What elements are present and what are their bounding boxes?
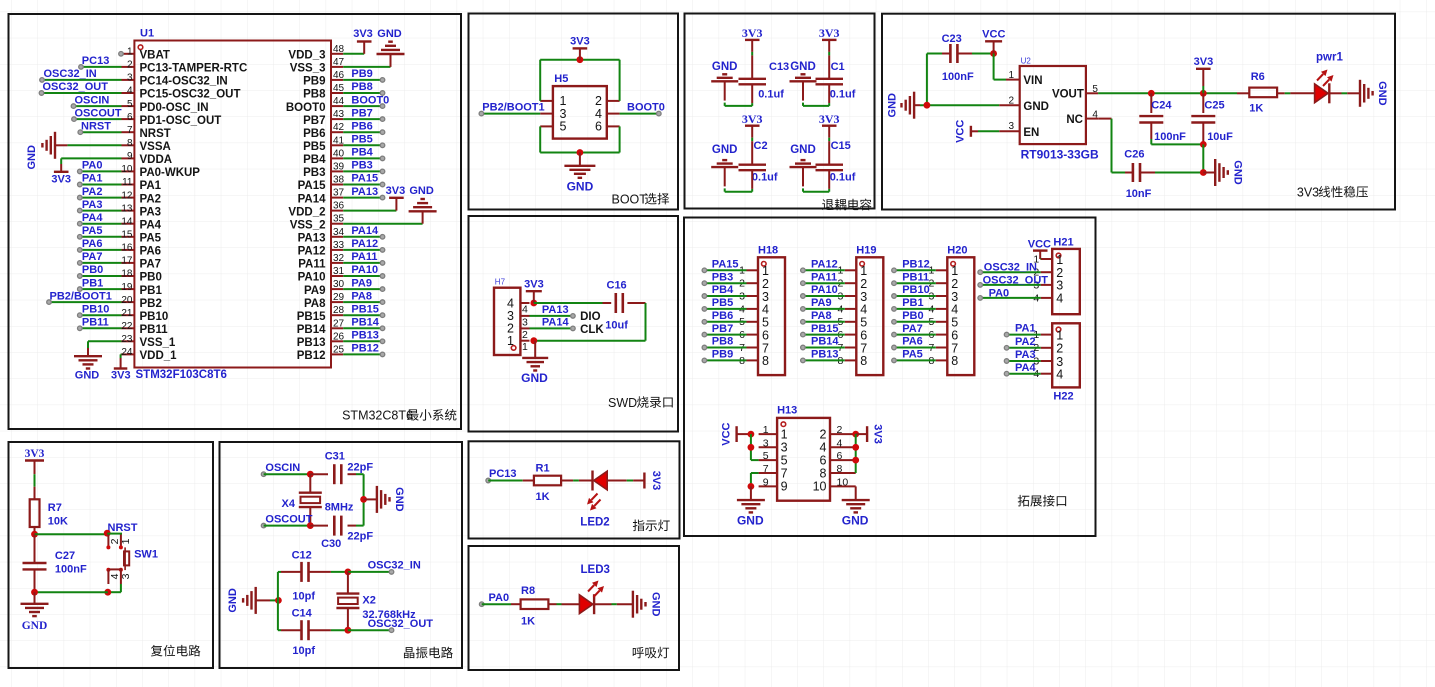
svg-text:PB7: PB7 [303, 115, 325, 127]
net label PB8 [712, 336, 733, 348]
svg-text:0.1uf: 0.1uf [830, 88, 856, 100]
ground symbol for C1 [790, 61, 817, 101]
svg-text:PA14: PA14 [542, 316, 570, 328]
svg-text:8: 8 [820, 466, 827, 480]
svg-text:15: 15 [121, 230, 133, 241]
power symbol 3V3 at U1 VDD_1 [111, 369, 131, 382]
svg-text:20: 20 [121, 295, 133, 306]
svg-text:R6: R6 [1251, 71, 1265, 83]
svg-text:1K: 1K [1249, 102, 1263, 114]
svg-text:PC13: PC13 [489, 468, 517, 480]
svg-text:GND: GND [737, 513, 764, 527]
svg-text:2: 2 [1056, 342, 1063, 356]
wire PA0 to H21 [980, 297, 1040, 299]
svg-text:C25: C25 [1204, 100, 1224, 112]
wire U1 VSS_1 pin23 to ground [88, 341, 122, 356]
LED2 diode [580, 471, 609, 529]
svg-text:PA0: PA0 [989, 287, 1010, 299]
svg-text:1: 1 [1056, 253, 1063, 267]
svg-text:H18: H18 [758, 244, 778, 256]
svg-text:PB7: PB7 [712, 323, 733, 335]
power symbol 3V3 for C15 [819, 112, 840, 126]
svg-text:PB14: PB14 [297, 324, 326, 336]
net label PA13 [351, 186, 378, 198]
svg-text:26: 26 [333, 331, 345, 342]
net label PA5 [82, 225, 103, 237]
node PA15 open end [702, 268, 707, 273]
net label OSCIN [265, 462, 300, 474]
wire PB4 to H18 pin 3 [704, 295, 746, 297]
node PA6 open end [78, 248, 83, 253]
node PB15 open end [380, 313, 385, 318]
svg-text:2: 2 [837, 424, 843, 436]
svg-text:1: 1 [522, 341, 528, 353]
svg-text:PB11: PB11 [82, 317, 109, 329]
ground symbol boot [564, 153, 595, 194]
wire net PA3 to U1 pin 13 [80, 210, 122, 212]
net label PB15 [351, 303, 379, 315]
wire net PB3 from U1 pin 39 [343, 170, 382, 172]
svg-text:PB12: PB12 [902, 258, 930, 270]
node PA7 open end [892, 332, 897, 337]
svg-text:PA3: PA3 [1015, 349, 1036, 361]
net label PA3 [82, 199, 103, 211]
svg-text:44: 44 [333, 96, 345, 107]
svg-text:C24: C24 [1151, 100, 1172, 112]
junction node H13 pin6 [852, 457, 859, 464]
section title STM32C8T6 minimal system [342, 409, 456, 423]
net label BOOT0 [351, 94, 389, 106]
wire PB6 to H18 pin 5 [704, 321, 746, 323]
ground symbol 32k section [227, 587, 256, 614]
resistor R7 [30, 499, 68, 527]
regulator U2 RT9013-33GB [1008, 57, 1099, 162]
svg-text:PB10: PB10 [902, 284, 930, 296]
svg-text:OSC32_IN: OSC32_IN [984, 262, 1037, 274]
svg-text:GND: GND [1023, 101, 1049, 113]
svg-text:25: 25 [333, 344, 345, 355]
svg-text:H21: H21 [1053, 237, 1073, 249]
wire H5 pin1/pin2 to 3V3 loop [540, 60, 619, 101]
svg-text:4: 4 [860, 303, 867, 317]
svg-text:5: 5 [560, 120, 567, 134]
svg-text:PC13-TAMPER-RTC: PC13-TAMPER-RTC [140, 63, 248, 75]
svg-text:17: 17 [121, 256, 133, 267]
svg-text:PA8: PA8 [304, 298, 326, 310]
svg-text:39: 39 [333, 161, 345, 172]
svg-text:OSCIN: OSCIN [75, 94, 110, 106]
svg-text:GND: GND [790, 61, 816, 73]
section title indicator LED [633, 520, 670, 532]
svg-text:PA4: PA4 [1015, 362, 1036, 374]
svg-text:GND: GND [712, 144, 738, 156]
wire PA8 to H19 pin 5 [803, 321, 845, 323]
node PA1 open end [78, 182, 83, 187]
wire net PA10 from U1 pin 31 [343, 275, 382, 277]
svg-text:VCC: VCC [1028, 239, 1051, 251]
node OSC32_IN open end [389, 570, 394, 575]
wire VCC to H21 pin1 [1039, 251, 1042, 259]
capacitor C24 100nF [1139, 93, 1186, 143]
svg-text:6: 6 [837, 450, 843, 462]
wire PC13 to R1 [488, 480, 534, 482]
wire C23 right to VCC node [972, 53, 994, 55]
svg-text:23: 23 [121, 334, 133, 345]
svg-text:X2: X2 [362, 594, 375, 606]
node PB5 open end [380, 143, 385, 148]
svg-text:H19: H19 [856, 244, 876, 256]
wire PA2 to H22 pin 2 [1007, 347, 1041, 349]
svg-text:6: 6 [951, 328, 958, 342]
wire H13 left rail top [751, 434, 759, 460]
wire H13 right rail [855, 434, 857, 473]
wire net PB0 to U1 pin 18 [80, 275, 122, 277]
svg-text:C13: C13 [769, 61, 789, 73]
net label PB6 [351, 120, 372, 132]
svg-text:VDD_1: VDD_1 [140, 350, 178, 362]
node PC13 open end [79, 65, 84, 70]
svg-text:3V3: 3V3 [353, 28, 373, 40]
section title expansion interface [1018, 495, 1066, 507]
wire PB2/BOOT1 to H5 pin3 [481, 113, 540, 115]
svg-text:NC: NC [1066, 114, 1083, 126]
wire net PB13 from U1 pin 26 [343, 340, 382, 342]
wire net PB10 to U1 pin 21 [80, 314, 122, 316]
svg-text:6: 6 [127, 112, 133, 123]
svg-text:3V3: 3V3 [819, 112, 840, 126]
chip U1 STM32F103C8T6 [121, 28, 344, 381]
svg-text:H22: H22 [1053, 391, 1073, 403]
junction node VOUT at C25 [1200, 90, 1207, 97]
crystal X2 32.768kHz [336, 572, 416, 630]
wire R6 to pwr1 [1277, 92, 1315, 94]
wire net OSC32_OUT to U1 pin 4 [42, 92, 122, 94]
junction node C26 ground [1200, 169, 1207, 176]
net label PA7 [902, 323, 923, 335]
net label PB1 [82, 277, 103, 289]
svg-text:8: 8 [951, 354, 958, 368]
ground symbol for C2 [711, 144, 738, 186]
svg-text:GND: GND [567, 180, 594, 194]
node OSC32_OUT open end [39, 91, 44, 96]
wire H5 pin4 to BOOT0 [620, 113, 659, 115]
net label PA14 [351, 225, 379, 237]
net label NRST [108, 522, 138, 534]
ground symbol at U1 VSS_1 [74, 356, 102, 381]
svg-text:GND: GND [1232, 160, 1244, 185]
net label PA15 [712, 258, 739, 270]
wire VCC to H13 pin1 [737, 433, 751, 435]
wire C25 bottom to C26 node [1202, 144, 1204, 172]
svg-text:8: 8 [762, 354, 769, 368]
svg-text:U2: U2 [1021, 57, 1032, 66]
svg-text:27: 27 [333, 318, 345, 329]
svg-text:9: 9 [127, 151, 133, 162]
svg-text:SWD: SWD [608, 396, 637, 410]
net label PA0 [82, 160, 103, 172]
svg-text:PA4: PA4 [140, 219, 162, 231]
wire PB15 to H19 pin 6 [803, 334, 845, 336]
wire PA4 to H22 pin 4 [1007, 373, 1041, 375]
net label PB10 [902, 284, 930, 296]
wire 3V3 to C15 [828, 126, 830, 165]
net label PB9 [351, 68, 372, 80]
node PB9 open end [702, 358, 707, 363]
svg-text:PA2: PA2 [82, 186, 103, 198]
svg-text:3V3: 3V3 [742, 26, 763, 40]
wire PB13 to H19 pin 8 [803, 359, 845, 361]
svg-text:EN: EN [1023, 127, 1039, 139]
svg-text:11: 11 [122, 177, 133, 188]
svg-text:STM32F103C8T6: STM32F103C8T6 [136, 369, 227, 381]
node PB14 open end [380, 326, 385, 331]
svg-text:6: 6 [820, 453, 827, 467]
node PA1 open end H22 [1004, 332, 1009, 337]
node PA12 open end [801, 268, 806, 273]
node OSC32_IN open end H21 [978, 270, 983, 275]
svg-text:PA1: PA1 [140, 180, 162, 192]
svg-text:7: 7 [763, 463, 769, 475]
junction node H13 pin2 [852, 431, 859, 438]
resistor R8 1K [521, 585, 549, 627]
net label PB3 [351, 160, 372, 172]
net label PA15 [351, 173, 378, 185]
svg-text:PB12: PB12 [297, 350, 326, 362]
svg-text:40: 40 [333, 148, 345, 159]
svg-text:VOUT: VOUT [1052, 88, 1084, 100]
node PB7 open end [380, 117, 385, 122]
svg-text:3: 3 [763, 437, 769, 449]
net label PA7 [82, 251, 103, 263]
net label PB15 [811, 323, 839, 335]
wire net PA11 from U1 pin 32 [343, 262, 382, 264]
wire C16 to H7 pin1 loop [534, 303, 646, 341]
svg-text:3: 3 [127, 73, 133, 84]
net label PB9 [712, 349, 733, 361]
svg-text:H7: H7 [495, 278, 506, 287]
svg-text:21: 21 [121, 308, 133, 319]
svg-text:4: 4 [951, 303, 958, 317]
svg-text:42: 42 [333, 122, 345, 133]
node PA2 open end [78, 195, 83, 200]
net label PA1 H22 [1015, 323, 1036, 335]
svg-text:PB9: PB9 [712, 349, 733, 361]
svg-text:5: 5 [781, 453, 788, 467]
svg-text:8: 8 [127, 138, 133, 149]
svg-text:4: 4 [1056, 368, 1063, 382]
svg-text:7: 7 [860, 341, 867, 355]
svg-text:0.1uf: 0.1uf [752, 171, 778, 183]
svg-text:1K: 1K [521, 615, 535, 627]
net label PB12 [351, 343, 379, 355]
node BOOT0 open end [380, 104, 385, 109]
net label PA4 [82, 212, 103, 224]
net label PA1 [82, 173, 103, 185]
ground symbol reset circuit [21, 592, 49, 632]
node PB2/BOOT1 open end [47, 300, 52, 305]
header H21 [1033, 237, 1079, 315]
wire PB8 to H18 pin 7 [704, 347, 746, 349]
ground symbol 8MHz section [377, 486, 405, 513]
svg-text:PB15: PB15 [811, 323, 839, 335]
wire PA6 to H20 pin 7 [894, 347, 936, 349]
wire PB9 to H18 pin 8 [704, 359, 746, 361]
svg-text:PA14: PA14 [351, 225, 379, 237]
wire VCC node to U2 VIN [994, 54, 1020, 80]
text DIO [580, 311, 601, 323]
svg-text:3V3: 3V3 [386, 185, 406, 197]
node PA6 open end [892, 345, 897, 350]
net label PB2/BOOT1 [482, 101, 544, 113]
junction node H13 pin1 [748, 431, 755, 438]
svg-text:PB8: PB8 [303, 89, 326, 101]
node PB1 open end [78, 287, 83, 292]
wire R7 to node NRST [34, 527, 36, 534]
wire net PA5 to U1 pin 15 [80, 236, 122, 238]
wire C15 to ground [803, 170, 829, 191]
svg-text:10nF: 10nF [1126, 188, 1152, 200]
ground symbol at U1 VSS_3 [377, 28, 405, 54]
svg-text:VSS_1: VSS_1 [140, 337, 176, 349]
svg-text:5: 5 [127, 99, 133, 110]
net label PB11 [82, 317, 109, 329]
svg-text:6: 6 [860, 328, 867, 342]
wire PB5 to H18 pin 4 [704, 308, 746, 310]
ground symbol at C26 node [1203, 159, 1243, 186]
svg-text:2: 2 [1008, 95, 1014, 106]
svg-text:C14: C14 [292, 608, 313, 620]
net label NRST [81, 120, 111, 132]
svg-text:PB4: PB4 [303, 154, 326, 166]
svg-text:8: 8 [837, 463, 843, 475]
svg-text:GND: GND [227, 588, 239, 613]
net label OSC32_IN [368, 560, 421, 572]
svg-text:PA15: PA15 [712, 258, 739, 270]
net label OSCOUT [75, 107, 122, 119]
svg-text:10: 10 [837, 476, 849, 488]
power symbol 3V3 SWD [524, 278, 544, 303]
wire C24 to C25 bottom [1151, 139, 1203, 144]
wire ground to junction 32k [256, 599, 279, 601]
net label PA2 H22 [1015, 336, 1036, 348]
ground symbol at pwr1 [1360, 80, 1388, 107]
wire 3V3 to C1 [828, 40, 830, 79]
net label OSC32_IN [44, 68, 97, 80]
net label BOOT0 [627, 101, 665, 113]
svg-text:3: 3 [120, 573, 132, 579]
svg-text:16: 16 [121, 243, 133, 254]
wire PA11 to H19 pin 2 [803, 282, 845, 284]
svg-text:PA4: PA4 [82, 212, 103, 224]
header H20 [928, 244, 974, 375]
header H22 [1033, 323, 1079, 402]
ground symbol for C13 [711, 61, 738, 101]
node PB11 open end [78, 326, 83, 331]
net label PA0 led3 [489, 592, 510, 604]
node PB13 open end [380, 339, 385, 344]
junction node ground rail [924, 102, 931, 109]
svg-text:R8: R8 [521, 585, 535, 597]
node PA15 open end [380, 182, 385, 187]
wire 3V3 to R7 [34, 461, 36, 500]
svg-text:1: 1 [1008, 70, 1014, 81]
svg-text:C1: C1 [831, 61, 845, 73]
wire 3V3 to C2 [751, 126, 753, 165]
junction node C27/SW1 ground [104, 589, 111, 596]
svg-text:OSC32_OUT: OSC32_OUT [368, 618, 434, 630]
node PB13 open end [801, 358, 806, 363]
svg-text:SW1: SW1 [134, 549, 158, 561]
svg-text:PB6: PB6 [712, 310, 733, 322]
node PA0 open end [78, 169, 83, 174]
wire ground to U2 GND pin [914, 104, 1020, 106]
power symbol 3V3 for C2 [742, 112, 763, 126]
net label PB1 [902, 297, 923, 309]
svg-text:7: 7 [762, 341, 769, 355]
svg-text:13: 13 [121, 203, 133, 214]
node PB6 open end [702, 320, 707, 325]
svg-text:OSCIN: OSCIN [265, 462, 300, 474]
wire junction to ground [364, 498, 377, 500]
wire pwr1 to ground [1329, 92, 1360, 94]
net label PB10 [82, 303, 110, 315]
wire PA10 to H19 pin 3 [803, 295, 845, 297]
LED pwr1 [1315, 51, 1344, 103]
svg-text:34: 34 [333, 227, 345, 238]
svg-text:8: 8 [860, 354, 867, 368]
junction node OSCOUT [307, 522, 314, 529]
node PA10 open end [801, 294, 806, 299]
svg-text:GND: GND [650, 592, 662, 617]
node PA7 open end [78, 261, 83, 266]
net label PB13 [351, 330, 379, 342]
svg-text:PA1: PA1 [1015, 323, 1036, 335]
wire net PA0 to U1 pin 10 [80, 170, 122, 172]
svg-text:10pf: 10pf [292, 591, 315, 603]
header H5 boot selector [540, 73, 619, 139]
svg-text:1: 1 [860, 264, 867, 278]
svg-text:PA5: PA5 [140, 233, 162, 245]
svg-text:PA15: PA15 [351, 173, 378, 185]
svg-text:PB13: PB13 [351, 330, 379, 342]
wire H7 pin3 to PA13 [530, 315, 573, 317]
svg-text:6: 6 [595, 120, 602, 134]
svg-text:PA5: PA5 [902, 349, 923, 361]
svg-text:GND: GND [1376, 81, 1388, 106]
switch SW1 [106, 533, 158, 584]
svg-text:C30: C30 [321, 538, 341, 550]
svg-text:3V3: 3V3 [111, 370, 131, 382]
svg-text:12: 12 [121, 190, 133, 201]
wire PA5 to H20 pin 8 [894, 359, 936, 361]
junction node OSC32_IN [345, 569, 352, 576]
svg-text:C31: C31 [325, 451, 345, 463]
svg-text:VCC: VCC [955, 120, 967, 143]
svg-text:VDDA: VDDA [140, 154, 173, 166]
node PB4 open end [702, 294, 707, 299]
wire PB3 to H18 pin 2 [704, 282, 746, 284]
wire PB14 to H19 pin 7 [803, 347, 845, 349]
wire net PB5 from U1 pin 41 [343, 144, 382, 146]
wire SW1 pin4/3 to ground rail [108, 584, 121, 592]
node PA11 open end [380, 261, 385, 266]
wire PB7 to H18 pin 6 [704, 334, 746, 336]
svg-text:8MHz: 8MHz [325, 502, 354, 514]
wire U1 VSSA pin8 to ground [55, 144, 122, 146]
svg-text:VCC: VCC [721, 422, 733, 445]
svg-text:OSC32_OUT: OSC32_OUT [983, 274, 1049, 286]
power symbol VCC regulator [982, 28, 1005, 53]
